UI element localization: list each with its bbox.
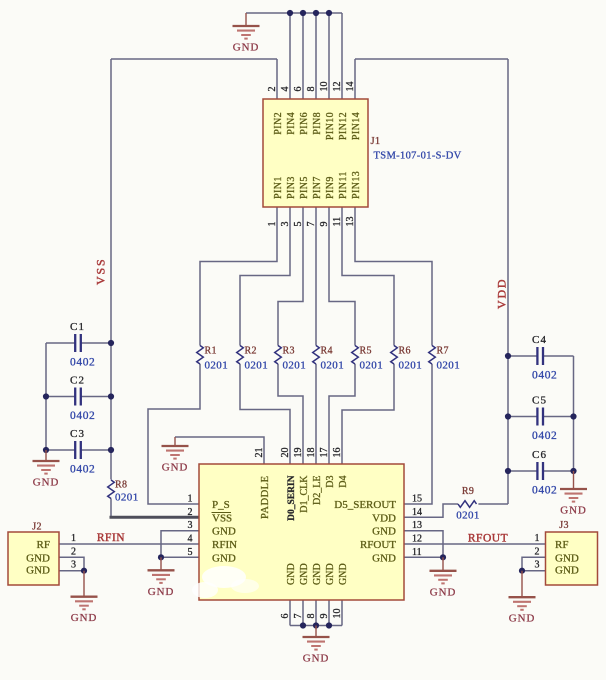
svg-text:GND: GND bbox=[286, 563, 297, 585]
svg-text:PIN12: PIN12 bbox=[338, 112, 349, 140]
svg-text:1: 1 bbox=[535, 533, 540, 544]
svg-text:C3: C3 bbox=[70, 428, 85, 440]
svg-text:RFOUT: RFOUT bbox=[468, 533, 508, 545]
svg-text:5: 5 bbox=[293, 222, 304, 227]
svg-text:GND: GND bbox=[162, 462, 189, 474]
svg-text:4: 4 bbox=[280, 87, 291, 92]
svg-text:GND: GND bbox=[303, 653, 330, 665]
svg-text:11: 11 bbox=[412, 547, 422, 558]
svg-text:1: 1 bbox=[71, 533, 76, 544]
svg-text:21: 21 bbox=[254, 448, 265, 458]
svg-text:8: 8 bbox=[306, 87, 317, 92]
svg-text:PIN6: PIN6 bbox=[299, 112, 310, 135]
svg-text:R2: R2 bbox=[245, 346, 257, 357]
svg-text:PIN3: PIN3 bbox=[286, 176, 297, 199]
svg-text:RFOUT: RFOUT bbox=[360, 539, 396, 551]
svg-text:0402: 0402 bbox=[70, 357, 95, 369]
svg-text:R6: R6 bbox=[399, 346, 411, 357]
svg-text:3: 3 bbox=[280, 222, 291, 227]
svg-text:GND: GND bbox=[148, 586, 175, 598]
svg-text:GND: GND bbox=[430, 586, 457, 598]
svg-text:R3: R3 bbox=[283, 346, 295, 357]
svg-text:6: 6 bbox=[293, 87, 304, 92]
svg-text:0201: 0201 bbox=[321, 360, 345, 372]
svg-text:0201: 0201 bbox=[245, 360, 269, 372]
svg-text:GND: GND bbox=[299, 563, 310, 585]
svg-text:2: 2 bbox=[188, 507, 193, 518]
svg-text:D4: D4 bbox=[338, 476, 349, 488]
svg-text:14: 14 bbox=[345, 82, 356, 92]
svg-text:VDD: VDD bbox=[372, 512, 396, 524]
svg-text:PIN13: PIN13 bbox=[351, 171, 362, 199]
svg-text:R1: R1 bbox=[205, 346, 217, 357]
svg-text:20: 20 bbox=[280, 448, 291, 458]
svg-text:R4: R4 bbox=[321, 346, 333, 357]
svg-text:D2_LE: D2_LE bbox=[312, 476, 323, 505]
svg-text:PIN9: PIN9 bbox=[325, 176, 336, 199]
svg-text:GND: GND bbox=[338, 563, 349, 585]
svg-text:0201: 0201 bbox=[456, 510, 480, 522]
svg-text:J1: J1 bbox=[371, 136, 381, 147]
svg-text:GND: GND bbox=[312, 563, 323, 585]
svg-text:PIN14: PIN14 bbox=[351, 112, 362, 140]
svg-text:C1: C1 bbox=[70, 321, 85, 333]
svg-text:PIN2: PIN2 bbox=[273, 112, 284, 135]
svg-text:6: 6 bbox=[280, 614, 291, 619]
svg-text:2: 2 bbox=[71, 546, 76, 557]
svg-text:10: 10 bbox=[319, 82, 330, 92]
svg-text:GND: GND bbox=[555, 552, 579, 564]
svg-text:12: 12 bbox=[412, 534, 422, 545]
svg-text:2: 2 bbox=[535, 546, 540, 557]
svg-text:0201: 0201 bbox=[399, 360, 423, 372]
svg-text:VSS: VSS bbox=[212, 512, 232, 524]
svg-text:3: 3 bbox=[188, 520, 193, 531]
svg-text:14: 14 bbox=[412, 507, 422, 518]
svg-text:R9: R9 bbox=[462, 486, 474, 497]
svg-text:13: 13 bbox=[345, 217, 356, 227]
svg-text:9: 9 bbox=[319, 614, 330, 619]
svg-text:1: 1 bbox=[188, 494, 193, 505]
svg-text:GND: GND bbox=[33, 477, 60, 489]
svg-text:PIN7: PIN7 bbox=[312, 176, 323, 199]
svg-text:C4: C4 bbox=[532, 334, 547, 346]
svg-text:0402: 0402 bbox=[70, 464, 95, 476]
svg-text:10: 10 bbox=[332, 609, 343, 619]
svg-text:D3: D3 bbox=[325, 476, 336, 488]
svg-text:GND: GND bbox=[212, 552, 236, 564]
svg-text:PIN4: PIN4 bbox=[286, 112, 297, 135]
svg-text:0402: 0402 bbox=[532, 485, 557, 497]
svg-text:2: 2 bbox=[267, 87, 278, 92]
svg-text:D1_CLK: D1_CLK bbox=[299, 475, 310, 513]
svg-text:GND: GND bbox=[555, 565, 579, 577]
svg-text:3: 3 bbox=[535, 560, 540, 571]
svg-text:15: 15 bbox=[412, 494, 422, 505]
svg-text:GND: GND bbox=[560, 505, 587, 517]
svg-text:PIN8: PIN8 bbox=[312, 112, 323, 135]
svg-text:J3: J3 bbox=[559, 520, 569, 531]
svg-text:3: 3 bbox=[71, 560, 76, 571]
svg-text:P_S: P_S bbox=[212, 499, 230, 511]
svg-text:17: 17 bbox=[319, 448, 330, 458]
svg-text:GND: GND bbox=[372, 552, 396, 564]
svg-text:PIN10: PIN10 bbox=[325, 112, 336, 140]
svg-text:C5: C5 bbox=[532, 395, 547, 407]
svg-text:GND: GND bbox=[509, 613, 536, 625]
svg-text:5: 5 bbox=[188, 547, 193, 558]
svg-text:1: 1 bbox=[267, 222, 278, 227]
svg-text:R7: R7 bbox=[437, 346, 449, 357]
svg-text:8: 8 bbox=[306, 614, 317, 619]
svg-text:0201: 0201 bbox=[437, 360, 461, 372]
svg-text:0201: 0201 bbox=[115, 492, 139, 504]
svg-text:GND: GND bbox=[325, 563, 336, 585]
svg-text:13: 13 bbox=[412, 520, 422, 531]
svg-text:GND: GND bbox=[372, 526, 396, 538]
svg-text:RF: RF bbox=[555, 539, 568, 551]
svg-text:R5: R5 bbox=[360, 346, 372, 357]
svg-text:TSM-107-01-S-DV: TSM-107-01-S-DV bbox=[374, 151, 462, 162]
svg-text:PADDLE: PADDLE bbox=[260, 476, 271, 519]
svg-text:GND: GND bbox=[71, 612, 98, 624]
svg-text:7: 7 bbox=[306, 222, 317, 227]
svg-text:C6: C6 bbox=[532, 449, 547, 461]
svg-text:RFIN: RFIN bbox=[97, 532, 125, 544]
svg-text:0201: 0201 bbox=[360, 360, 384, 372]
svg-text:0201: 0201 bbox=[205, 360, 229, 372]
svg-text:0201: 0201 bbox=[283, 360, 307, 372]
svg-text:12: 12 bbox=[332, 82, 343, 92]
svg-text:GND: GND bbox=[212, 526, 236, 538]
svg-text:PIN1: PIN1 bbox=[273, 176, 284, 199]
svg-text:GND: GND bbox=[26, 552, 50, 564]
svg-text:19: 19 bbox=[293, 448, 304, 458]
svg-text:0402: 0402 bbox=[70, 410, 95, 422]
svg-text:11: 11 bbox=[332, 217, 343, 227]
svg-text:4: 4 bbox=[188, 534, 193, 545]
svg-text:D0_SERIN: D0_SERIN bbox=[287, 475, 297, 521]
svg-text:C2: C2 bbox=[70, 375, 85, 387]
svg-text:PIN11: PIN11 bbox=[338, 171, 349, 199]
svg-text:PIN5: PIN5 bbox=[299, 176, 310, 199]
svg-text:R8: R8 bbox=[115, 480, 127, 491]
svg-text:GND: GND bbox=[26, 565, 50, 577]
svg-text:RF: RF bbox=[37, 539, 50, 551]
svg-text:D5_SEROUT: D5_SEROUT bbox=[334, 499, 396, 511]
svg-text:J2: J2 bbox=[32, 522, 42, 533]
svg-text:0402: 0402 bbox=[532, 430, 557, 442]
svg-text:7: 7 bbox=[293, 614, 304, 619]
svg-text:9: 9 bbox=[319, 222, 330, 227]
svg-text:0402: 0402 bbox=[532, 370, 557, 382]
svg-text:16: 16 bbox=[332, 448, 343, 458]
svg-text:VDD: VDD bbox=[495, 278, 509, 309]
svg-text:GND: GND bbox=[233, 42, 260, 54]
svg-text:VSS: VSS bbox=[94, 258, 108, 285]
svg-text:RFIN: RFIN bbox=[212, 539, 237, 551]
svg-text:18: 18 bbox=[306, 448, 317, 458]
